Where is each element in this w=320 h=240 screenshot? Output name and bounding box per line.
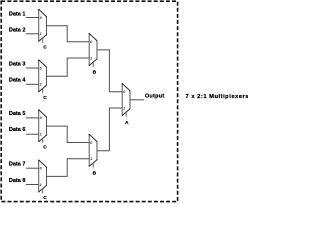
wire Data 6 to U3 pin 1 xyxy=(26,133,39,135)
svg-text:1: 1 xyxy=(90,157,92,161)
svg-text:1: 1 xyxy=(40,133,42,137)
wire U2 output to U5 pin 1 xyxy=(47,58,90,76)
svg-text:Data 3: Data 3 xyxy=(9,62,26,68)
wire Data 8 to U4 pin 1 xyxy=(26,184,39,186)
wire Data 1 to U1 pin 0 xyxy=(26,17,39,19)
svg-text:1: 1 xyxy=(123,106,125,110)
select input stub xyxy=(42,138,44,143)
select input stub xyxy=(42,89,44,94)
wire Data 5 to U3 pin 0 xyxy=(26,117,39,119)
wire U1 output to U5 pin 0 xyxy=(47,26,90,42)
svg-text:Data 7: Data 7 xyxy=(9,161,26,167)
wire Data 2 to U1 pin 1 xyxy=(26,33,39,35)
svg-text:C: C xyxy=(43,195,47,201)
mux body outline xyxy=(38,9,40,42)
svg-text:B: B xyxy=(93,70,97,76)
wire Data 3 to U2 pin 0 xyxy=(26,67,39,69)
multiplexer C (U2, Data 3/4) xyxy=(38,59,47,100)
svg-text:B: B xyxy=(93,170,97,176)
svg-text:Data 1: Data 1 xyxy=(9,12,26,18)
wire U3 output to U6 pin 0 xyxy=(47,126,90,142)
svg-text:Output: Output xyxy=(145,94,165,100)
multiplexer B (U5, second stage top) xyxy=(89,33,98,75)
multiplexer B (U6, second stage bottom) xyxy=(89,134,98,176)
mux body outline xyxy=(38,109,40,142)
mux body outline xyxy=(38,60,40,93)
select input stub xyxy=(92,62,94,67)
dashed boundary box xyxy=(1,1,177,201)
svg-text:1: 1 xyxy=(90,56,92,60)
wire U5 output to U7 pin 0 xyxy=(97,50,122,92)
wire Data 7 to U4 pin 0 xyxy=(26,167,39,169)
svg-text:Data 6: Data 6 xyxy=(9,127,26,133)
wire Data 4 to U2 pin 1 xyxy=(26,83,39,85)
svg-text:1: 1 xyxy=(40,183,42,187)
select input stub xyxy=(125,112,127,117)
mux body outline xyxy=(121,83,123,116)
svg-text:Data 2: Data 2 xyxy=(9,28,26,34)
svg-text:1: 1 xyxy=(40,83,42,87)
svg-text:C: C xyxy=(43,95,47,101)
wire U7 output xyxy=(130,99,144,101)
multiplexer C (U1, Data 1/2) xyxy=(38,9,47,50)
multiplexer A (U7, final stage) xyxy=(122,83,131,126)
mux body outline xyxy=(88,134,90,167)
select input stub xyxy=(92,163,94,168)
svg-text:7 x 2:1 Multiplexers: 7 x 2:1 Multiplexers xyxy=(186,94,249,100)
mux body outline xyxy=(38,160,40,193)
wire U4 output to U6 pin 1 xyxy=(47,159,90,177)
svg-text:C: C xyxy=(43,44,47,50)
svg-text:1: 1 xyxy=(40,32,42,36)
svg-text:Data 8: Data 8 xyxy=(9,178,26,184)
select input stub xyxy=(42,189,44,194)
svg-text:Data 5: Data 5 xyxy=(9,111,26,117)
svg-text:A: A xyxy=(125,120,129,126)
multiplexer C (U4, Data 7/8) xyxy=(38,160,47,201)
svg-text:C: C xyxy=(43,145,47,151)
select input stub xyxy=(42,38,44,43)
mux body outline xyxy=(88,33,90,65)
multiplexer C (U3, Data 5/6) xyxy=(38,109,47,150)
wire U6 output to U7 pin 1 xyxy=(97,108,122,151)
svg-text:Data 4: Data 4 xyxy=(9,78,26,84)
